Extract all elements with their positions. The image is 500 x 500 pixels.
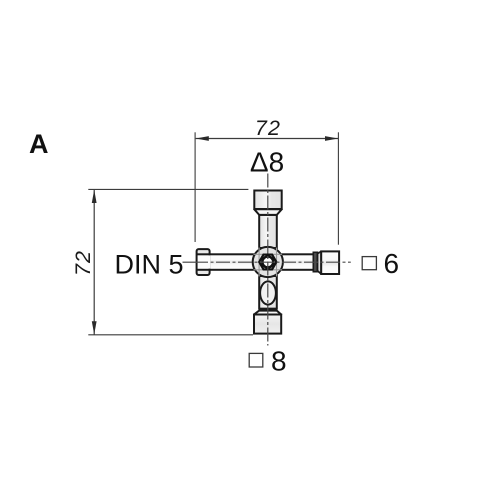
hex center hole [262,257,273,268]
top arm shaft [259,215,277,248]
top dim extension line left [194,132,196,242]
svg-text:DIN 5: DIN 5 [115,250,184,280]
right arm shaft [267,254,314,269]
left dim extension line top [88,188,248,190]
hub circle [253,247,283,277]
top dim arrow right [325,136,338,141]
DIN 5 leader line [183,261,197,263]
bottom socket taper [254,311,281,315]
top dim arrow left [196,136,209,141]
top socket [254,191,281,210]
left bit notch top edge [197,253,210,255]
left bit body [197,249,210,275]
right socket taper [318,251,322,274]
top dimension line [196,138,339,140]
square-6 symbol [362,257,376,270]
left bit notch [198,255,211,268]
oval cutout [260,281,276,304]
svg-text:72: 72 [255,116,281,140]
bottom shaft shoulder [259,308,277,311]
left bit notch bottom edge [197,269,210,271]
top dim extension line right [337,132,339,244]
left arm shaft [210,254,268,269]
left dim arrow top [92,190,97,203]
left dim arrow bottom [92,321,97,334]
left dim extension line bottom [88,334,253,336]
bottom arm shaft [259,276,277,309]
svg-text:72: 72 [71,250,95,276]
vertical centerline [267,174,269,346]
svg-text:8: 8 [271,345,287,376]
shaft edge lines through hub [254,248,283,277]
hex socket [259,255,276,270]
svg-text:Δ8: Δ8 [250,146,284,177]
square-8 symbol [249,353,263,367]
top socket taper [254,209,281,215]
right collar [313,252,317,271]
right socket [321,251,339,274]
left dimension line [93,190,95,335]
svg-text:A: A [29,129,49,159]
svg-text:6: 6 [384,248,400,279]
bottom socket [254,315,281,334]
horizontal centerline [196,261,351,263]
